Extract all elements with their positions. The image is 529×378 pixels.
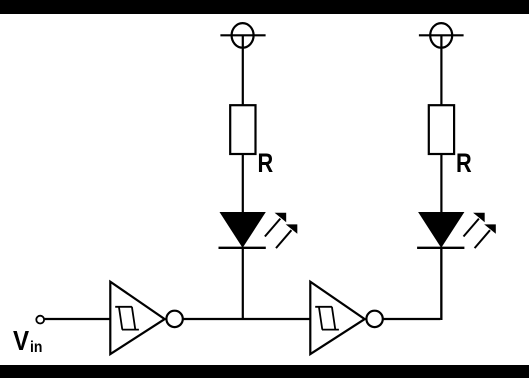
svg-text:R: R bbox=[258, 147, 274, 178]
svg-text:R: R bbox=[456, 147, 472, 178]
svg-text:in: in bbox=[30, 339, 42, 356]
svg-text:V: V bbox=[13, 325, 30, 356]
